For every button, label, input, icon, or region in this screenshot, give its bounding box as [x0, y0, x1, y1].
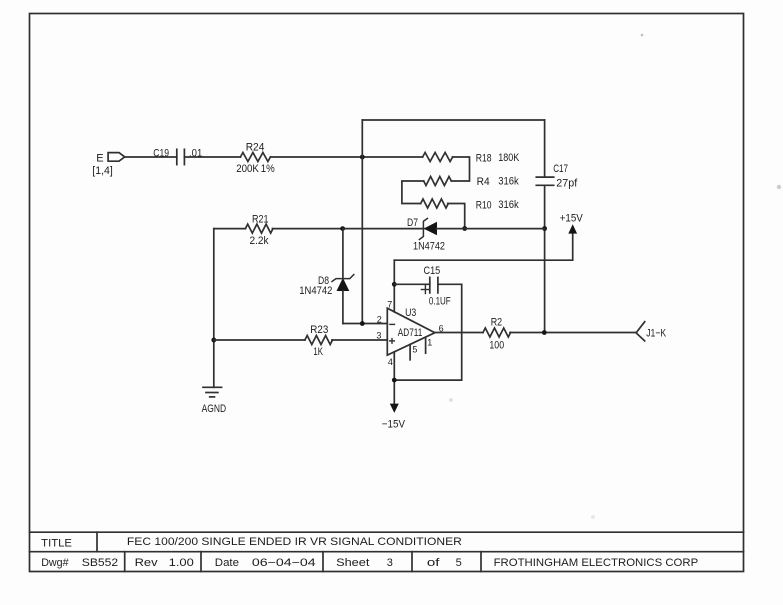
- svg-text:7: 7: [387, 300, 392, 310]
- svg-text:316k: 316k: [498, 176, 519, 188]
- title block: [30, 532, 744, 571]
- svg-text:R21: R21: [252, 213, 269, 225]
- svg-text:+15V: +15V: [560, 213, 584, 225]
- title block text: [41, 536, 698, 569]
- node output / feedback: [542, 330, 547, 335]
- svg-text:SB552: SB552: [82, 557, 118, 569]
- svg-text:FROTHINGHAM ELECTRONICS CORP: FROTHINGHAM ELECTRONICS CORP: [494, 557, 699, 569]
- svg-text:180K: 180K: [498, 152, 520, 164]
- svg-text:Dwg#: Dwg#: [41, 557, 69, 569]
- svg-text:5: 5: [456, 557, 462, 569]
- wire C19 to R24: [184, 156, 240, 158]
- wire R23 to op-amp pin 3: [332, 339, 387, 341]
- svg-text:1: 1: [427, 337, 432, 347]
- op-amp pin 1 stub: [425, 338, 427, 353]
- svg-text:AD711: AD711: [398, 327, 423, 339]
- svg-text:C15: C15: [424, 265, 441, 277]
- svg-text:27pf: 27pf: [556, 178, 578, 190]
- wire R24 to R18: [270, 156, 422, 158]
- wire AGND rail to R21: [214, 228, 246, 230]
- wire output to R2: [435, 332, 483, 334]
- left vertical AGND rail: [213, 229, 215, 388]
- node R23/AGND rail: [211, 338, 216, 343]
- wire +15V feed: [394, 233, 572, 261]
- resistor R23: [305, 336, 333, 345]
- svg-text:200K 1%: 200K 1%: [236, 163, 275, 175]
- svg-text:4: 4: [388, 357, 393, 367]
- wire R23 left: [214, 339, 305, 341]
- wire D7 to output node: [437, 228, 545, 230]
- resistor R10: [421, 199, 449, 208]
- wire pin 4 down: [393, 352, 395, 405]
- node at R24/R18/vertical: [360, 155, 365, 160]
- wire vertical inverting node: [361, 120, 363, 324]
- svg-text:5: 5: [412, 345, 417, 355]
- svg-text:1.00: 1.00: [169, 557, 194, 569]
- svg-text:R10: R10: [476, 200, 492, 212]
- svg-text:316k: 316k: [498, 199, 519, 211]
- svg-text:2: 2: [377, 315, 382, 325]
- svg-text:R18: R18: [476, 153, 492, 165]
- svg-text:1N4742: 1N4742: [299, 285, 332, 297]
- wire R18 right lead down to R4: [451, 157, 469, 181]
- resistor R21: [245, 224, 273, 233]
- wire R4 left lead down to R10: [402, 181, 424, 204]
- svg-text:TITLE: TITLE: [41, 537, 72, 549]
- scan smudge center: [449, 398, 453, 402]
- node pin4 / C15 return: [392, 378, 397, 383]
- scan speck right edge: [777, 185, 781, 189]
- node inverting input: [360, 321, 365, 326]
- svg-text:2.2k: 2.2k: [250, 235, 270, 247]
- node C17/D7 wire: [542, 226, 547, 231]
- capacitor C19: [177, 149, 185, 164]
- scan smudge above title block: [591, 515, 595, 519]
- svg-text:C17: C17: [553, 163, 568, 175]
- zener diode D7: [419, 218, 437, 239]
- svg-text:E: E: [96, 153, 103, 165]
- svg-text:C19: C19: [153, 147, 169, 159]
- capacitor C17: [536, 177, 553, 185]
- svg-text:1K: 1K: [313, 346, 323, 358]
- op-amp pin 5 stub: [409, 345, 411, 360]
- wire D8 to op-amp pin 2: [343, 323, 387, 325]
- +15V power symbol: [568, 224, 577, 233]
- svg-text:6: 6: [439, 323, 444, 333]
- connector E: [108, 153, 125, 162]
- svg-text:3: 3: [387, 557, 393, 569]
- wire pin 7 up: [393, 260, 395, 312]
- svg-text:06−04−04: 06−04−04: [252, 557, 316, 569]
- svg-text:R23: R23: [310, 324, 328, 336]
- svg-text:0.1UF: 0.1UF: [429, 296, 451, 308]
- wire C15 right loop to pin 4: [394, 284, 461, 380]
- svg-text:[1,4]: [1,4]: [92, 165, 113, 177]
- resistor R18: [423, 153, 453, 162]
- resistor R4: [424, 177, 452, 186]
- svg-text:AGND: AGND: [202, 403, 227, 415]
- capacitor C15: [430, 277, 438, 293]
- svg-text:D7: D7: [407, 217, 418, 229]
- svg-text:R2: R2: [491, 317, 502, 329]
- wire R2 to J1-K: [510, 332, 636, 334]
- connector J1-K chevron: [636, 322, 645, 341]
- svg-text:R24: R24: [246, 141, 265, 153]
- svg-text:Sheet: Sheet: [336, 557, 369, 569]
- svg-text:−15V: −15V: [382, 418, 406, 430]
- node pin7 / C15: [392, 282, 397, 287]
- ground AGND: [203, 387, 222, 397]
- node R10/D7 wire: [462, 226, 467, 231]
- wire R10 right lead down to D7 wire: [448, 204, 465, 229]
- op-amp U3 triangle: [387, 308, 435, 355]
- wire E to C19: [125, 156, 177, 158]
- svg-text:.01: .01: [189, 148, 202, 160]
- svg-text:of: of: [427, 557, 441, 569]
- svg-text:J1−K: J1−K: [646, 328, 667, 340]
- wire C15 left: [394, 283, 430, 285]
- resistor R2: [483, 328, 511, 337]
- op-amp plus sign pin3: [390, 339, 395, 344]
- svg-text:Rev: Rev: [135, 557, 159, 569]
- wire top loop: [362, 119, 544, 121]
- scan speck top right: [641, 34, 644, 37]
- wire R21 to D7: [272, 228, 423, 230]
- node R21 wire / D8 branch: [340, 226, 345, 231]
- svg-text:FEC 100/200 SINGLE ENDED IR VR: FEC 100/200 SINGLE ENDED IR VR SIGNAL CO…: [127, 536, 462, 548]
- svg-text:Date: Date: [215, 557, 239, 569]
- op-amp pin numbers: [376, 300, 443, 368]
- svg-text:U3: U3: [405, 307, 416, 319]
- svg-text:1N4742: 1N4742: [413, 240, 445, 252]
- svg-text:R4: R4: [477, 176, 490, 188]
- svg-text:100: 100: [489, 339, 504, 351]
- svg-text:3: 3: [376, 331, 381, 341]
- C15 polarity plus: [421, 286, 429, 294]
- resistor R24: [240, 153, 270, 162]
- -15V power symbol: [390, 404, 399, 413]
- wire top loop down to C17: [544, 120, 546, 177]
- zener diode D8: [332, 229, 354, 324]
- op-amp minus sign pin2: [390, 323, 395, 325]
- wire C17 down to output node: [544, 185, 546, 332]
